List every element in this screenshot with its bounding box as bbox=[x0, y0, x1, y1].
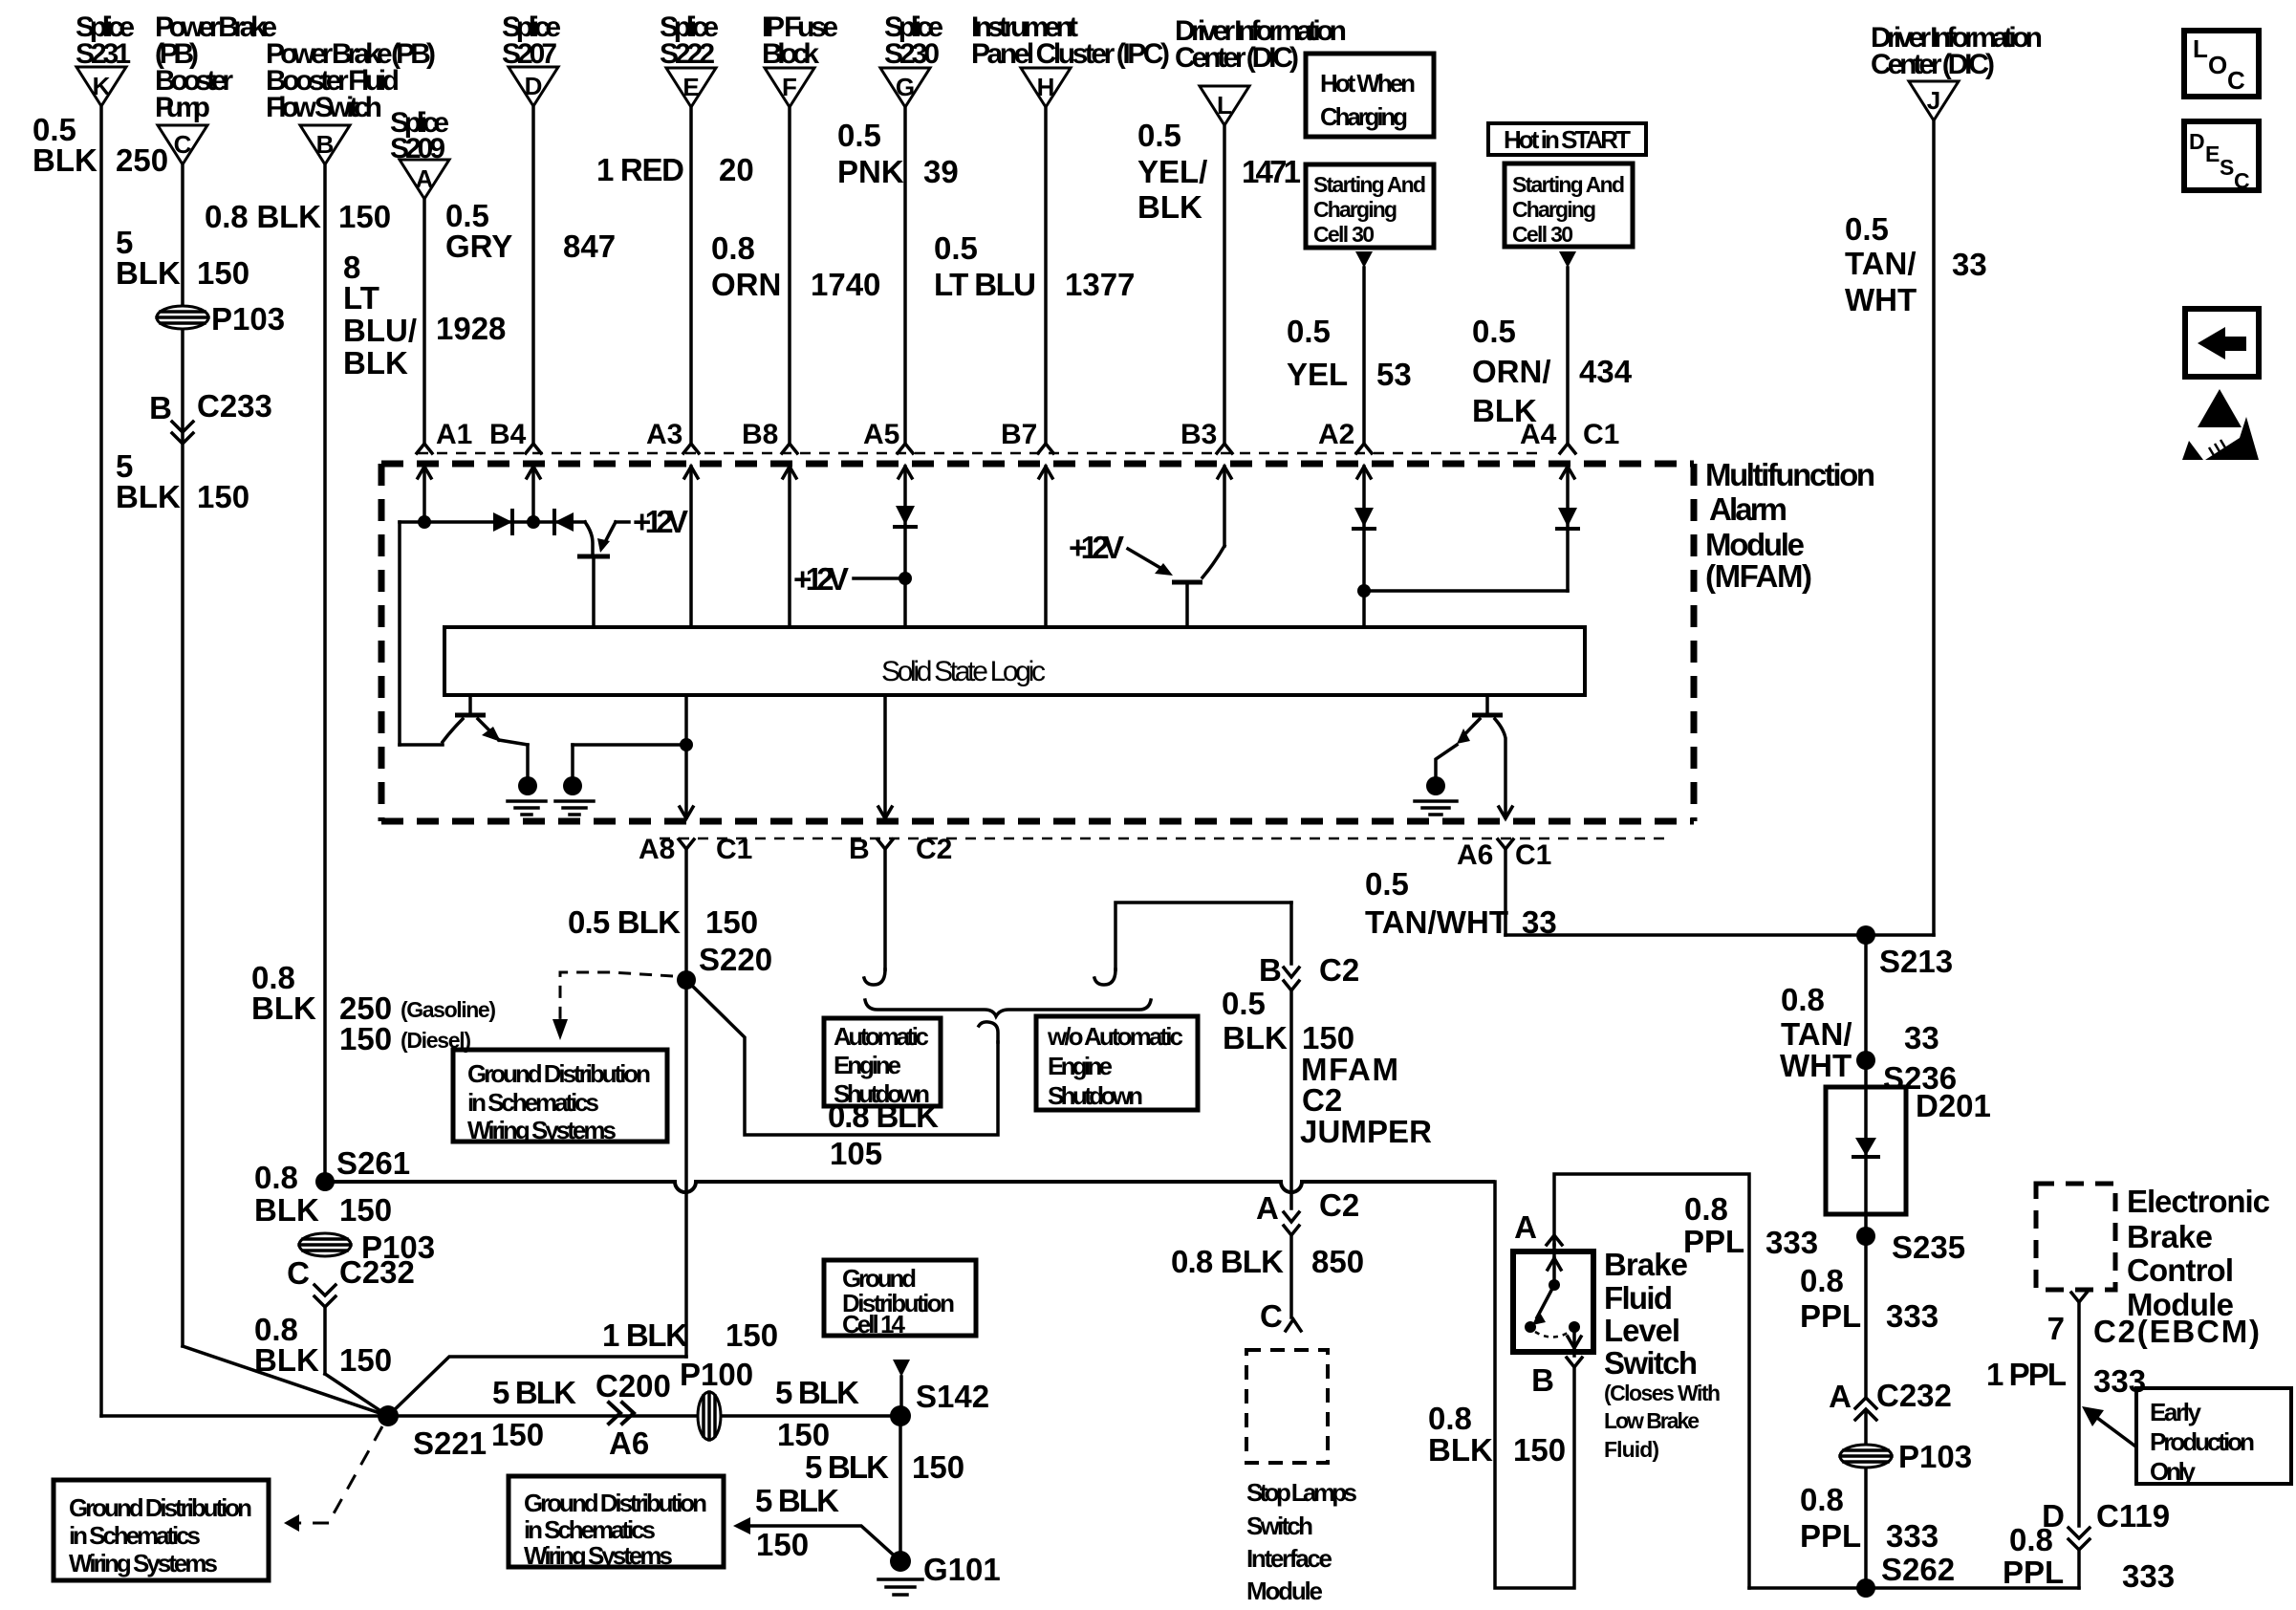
icon ESD symbol bbox=[2182, 389, 2259, 460]
svg-text:A5: A5 bbox=[863, 419, 899, 450]
svg-text:G101: G101 bbox=[923, 1552, 1001, 1587]
svg-text:Only: Only bbox=[2150, 1457, 2197, 1486]
svg-text:G: G bbox=[896, 73, 915, 101]
svg-text:5 BLK: 5 BLK bbox=[492, 1375, 576, 1410]
svg-text:C200: C200 bbox=[596, 1368, 671, 1403]
svg-text:0.8: 0.8 bbox=[2009, 1522, 2053, 1557]
svg-text:BLK: BLK bbox=[1223, 1020, 1288, 1055]
connector triangle E (Splice S222) bbox=[660, 11, 719, 107]
wire S213 to S236 labels 0.8 TAN/WHT 33 bbox=[1780, 935, 1939, 1087]
svg-text:YEL/: YEL/ bbox=[1137, 154, 1207, 189]
svg-text:333: 333 bbox=[2122, 1558, 2175, 1594]
svg-text:C1: C1 bbox=[1583, 419, 1619, 450]
splice S221 bbox=[378, 1405, 487, 1461]
svg-text:C: C bbox=[2227, 66, 2245, 95]
connector C232 pin A (right) bbox=[1829, 1378, 1952, 1588]
diode D-b (points left) bbox=[554, 511, 574, 533]
wire B of switch to S261 line 0.8 BLK 150 bbox=[1428, 1182, 1574, 1588]
svg-text:BLK: BLK bbox=[116, 255, 181, 291]
svg-text:LT BLU: LT BLU bbox=[934, 267, 1036, 302]
svg-text:Module: Module bbox=[1705, 527, 1805, 562]
wire D 0.5 GRY 847 bbox=[445, 106, 616, 444]
Brake Fluid Level Switch bbox=[1513, 1245, 1593, 1356]
svg-text:5 BLK: 5 BLK bbox=[805, 1449, 889, 1485]
svg-text:333: 333 bbox=[1765, 1225, 1818, 1260]
svg-text:(Gasoline): (Gasoline) bbox=[401, 997, 496, 1022]
svg-text:A1: A1 bbox=[436, 419, 472, 450]
svg-text:Wiring Systems: Wiring Systems bbox=[69, 1549, 218, 1577]
svg-text:(Diesel): (Diesel) bbox=[401, 1028, 471, 1053]
svg-text:LT: LT bbox=[343, 280, 379, 315]
svg-text:7: 7 bbox=[2047, 1311, 2065, 1346]
svg-text:B: B bbox=[849, 834, 870, 865]
svg-text:BLK: BLK bbox=[116, 479, 181, 514]
svg-text:1 PPL: 1 PPL bbox=[1986, 1357, 2067, 1392]
svg-text:BLK: BLK bbox=[251, 990, 316, 1026]
svg-text:Interface: Interface bbox=[1246, 1544, 1332, 1573]
pin B4 bbox=[489, 419, 541, 522]
diode on A5 wire bbox=[895, 506, 916, 527]
svg-text:150: 150 bbox=[197, 479, 249, 514]
svg-text:0.8: 0.8 bbox=[254, 1160, 298, 1195]
svg-text:D: D bbox=[2189, 129, 2205, 154]
module label Multifunction Alarm Module (MFAM) bbox=[1705, 457, 1875, 594]
svg-text:A: A bbox=[416, 164, 434, 193]
svg-text:B: B bbox=[1259, 952, 1282, 988]
svg-text:ORN/: ORN/ bbox=[1472, 354, 1551, 389]
svg-text:0.8: 0.8 bbox=[1684, 1191, 1728, 1227]
diode on A2 wire bbox=[1354, 508, 1375, 529]
wire 1 PPL 333 bbox=[1986, 1357, 2146, 1399]
connector triangle C (Power Brake Booster Pump) bbox=[155, 11, 277, 164]
svg-text:B8: B8 bbox=[742, 419, 778, 450]
svg-text:0.5: 0.5 bbox=[1472, 314, 1516, 349]
wire A4 to A2 junction bbox=[1357, 584, 1568, 598]
connector triangle F (IP Fuse Block) bbox=[762, 11, 838, 107]
jumper labels 0.8 BLK 850 bbox=[1171, 1244, 1364, 1279]
splice S220 bbox=[677, 970, 696, 990]
svg-text:Cell 14: Cell 14 bbox=[842, 1310, 906, 1338]
svg-text:0.8: 0.8 bbox=[1800, 1263, 1844, 1298]
splice S261 bbox=[315, 1145, 410, 1191]
svg-text:C233: C233 bbox=[197, 388, 272, 424]
svg-text:Shutdown: Shutdown bbox=[834, 1079, 930, 1108]
svg-text:D: D bbox=[525, 72, 543, 100]
svg-text:150: 150 bbox=[491, 1417, 544, 1452]
ground G101 bbox=[878, 1551, 1001, 1595]
switch label Brake Fluid Level Switch (Closes With Low Brake Fluid) bbox=[1604, 1247, 1721, 1462]
icon box DESC bbox=[2184, 121, 2259, 193]
wire S235 to C232 labels 0.8 PPL 333 bbox=[1800, 1236, 1939, 1398]
box Hot in START bbox=[1488, 123, 1646, 155]
svg-text:33: 33 bbox=[1904, 1020, 1939, 1055]
svg-text:Pump: Pump bbox=[155, 92, 210, 123]
svg-text:0.5: 0.5 bbox=[1137, 118, 1181, 153]
svg-text:5 BLK: 5 BLK bbox=[775, 1375, 859, 1410]
pin 7 C2(EBCM) bbox=[2047, 1293, 2260, 1526]
ground (A8 side) bbox=[555, 738, 693, 815]
svg-text:Fluid: Fluid bbox=[1604, 1280, 1673, 1316]
svg-text:BLU/: BLU/ bbox=[343, 313, 417, 348]
box Automatic Engine Shutdown bbox=[824, 1018, 941, 1108]
svg-text:Stop Lamps: Stop Lamps bbox=[1246, 1478, 1357, 1507]
svg-text:1471: 1471 bbox=[1242, 154, 1301, 189]
svg-text:Hot in START: Hot in START bbox=[1504, 125, 1631, 154]
wire K corner into S221 bbox=[101, 1414, 388, 1418]
svg-text:A6: A6 bbox=[609, 1425, 649, 1461]
svg-text:A: A bbox=[1256, 1190, 1279, 1226]
svg-text:Block: Block bbox=[762, 38, 819, 70]
transistor Q3 (right output) bbox=[1436, 695, 1512, 818]
svg-text:Starting And: Starting And bbox=[1313, 172, 1426, 197]
svg-text:434: 434 bbox=[1579, 354, 1633, 389]
wire L 0.5 YEL/BLK 1471 bbox=[1137, 118, 1301, 444]
svg-text:+12V: +12V bbox=[1069, 530, 1124, 565]
svg-text:Electronic: Electronic bbox=[2127, 1184, 2270, 1219]
svg-text:B: B bbox=[149, 390, 172, 425]
svg-text:250: 250 bbox=[116, 142, 168, 178]
svg-text:(Closes With: (Closes With bbox=[1604, 1381, 1721, 1405]
svg-text:150: 150 bbox=[1302, 1020, 1354, 1055]
wire S261 to brake fluid switch (hops over two wires) bbox=[325, 1182, 1495, 1192]
svg-text:S235: S235 bbox=[1892, 1229, 1965, 1265]
svg-text:847: 847 bbox=[563, 228, 616, 264]
svg-text:Center (DIC): Center (DIC) bbox=[1175, 42, 1299, 74]
ground (Q4 emitter) bbox=[508, 776, 546, 815]
svg-text:A4: A4 bbox=[1520, 419, 1557, 450]
wire J 0.5 TAN/WHT 33 bbox=[1845, 120, 1987, 935]
svg-text:PNK: PNK bbox=[837, 154, 904, 189]
box Ground Distribution in Schematics Wiring Systems (lower left) bbox=[54, 1480, 269, 1580]
Solid State Logic box bbox=[444, 627, 1585, 695]
svg-text:YEL: YEL bbox=[1287, 357, 1348, 392]
pin B3 bbox=[1180, 419, 1232, 546]
svg-text:in Schematics: in Schematics bbox=[524, 1515, 656, 1544]
svg-text:TAN/: TAN/ bbox=[1781, 1016, 1852, 1052]
svg-text:BLK: BLK bbox=[343, 345, 408, 381]
connector triangle H (Instrument Panel Cluster IPC) bbox=[971, 11, 1170, 107]
svg-text:Ground Distribution: Ground Distribution bbox=[467, 1059, 651, 1088]
svg-text:0.8: 0.8 bbox=[1781, 982, 1825, 1017]
+12V feed to A5 bbox=[793, 561, 912, 597]
labels 5 BLK 150 (right of P100) bbox=[775, 1375, 859, 1452]
connector A C2 on jumper wire bbox=[1256, 1187, 1359, 1317]
svg-text:S220: S220 bbox=[699, 942, 772, 977]
splice S142 bbox=[890, 1379, 989, 1426]
svg-text:0.5: 0.5 bbox=[934, 230, 978, 266]
svg-text:GRY: GRY bbox=[445, 228, 512, 264]
svg-text:1928: 1928 bbox=[436, 311, 506, 346]
wire B 0.8 BLK 150 bbox=[205, 164, 391, 1182]
svg-text:A2: A2 bbox=[1318, 419, 1354, 450]
wire E 1 RED 20 bbox=[596, 107, 754, 444]
svg-text:0.5: 0.5 bbox=[1287, 314, 1331, 349]
svg-text:1 BLK: 1 BLK bbox=[602, 1317, 688, 1353]
grommet P103 (wire B) bbox=[299, 1229, 435, 1265]
connector triangle J (Driver Information Center DIC) bbox=[1871, 22, 2043, 120]
svg-text:B3: B3 bbox=[1180, 419, 1217, 450]
svg-text:C232: C232 bbox=[339, 1254, 415, 1290]
svg-text:S142: S142 bbox=[916, 1379, 989, 1414]
svg-text:850: 850 bbox=[1311, 1244, 1364, 1279]
ground (Q3 emitter) bbox=[1415, 776, 1457, 815]
svg-text:Flow Switch: Flow Switch bbox=[266, 92, 382, 123]
svg-text:C: C bbox=[287, 1255, 310, 1291]
svg-text:TAN/WHT: TAN/WHT bbox=[1365, 904, 1508, 940]
grommet P100 bbox=[680, 1357, 753, 1440]
svg-text:Charging: Charging bbox=[1320, 102, 1408, 131]
svg-text:150: 150 bbox=[756, 1527, 809, 1562]
svg-text:150: 150 bbox=[339, 1192, 392, 1228]
wire G 0.5 PNK 39 bbox=[837, 107, 959, 444]
svg-text:0.5: 0.5 bbox=[1222, 986, 1266, 1021]
box Early Production Only bbox=[2136, 1388, 2291, 1486]
svg-text:Solid State Logic: Solid State Logic bbox=[881, 656, 1046, 687]
connector triangle K (Splice S231) bbox=[76, 11, 135, 106]
svg-text:150: 150 bbox=[338, 199, 391, 234]
svg-text:333: 333 bbox=[1886, 1298, 1939, 1334]
svg-text:BLK: BLK bbox=[1428, 1432, 1493, 1468]
svg-text:ORN: ORN bbox=[711, 267, 781, 302]
svg-text:B: B bbox=[316, 130, 335, 159]
main ground wire 5 BLK 150 to S142 bbox=[388, 1375, 900, 1452]
svg-text:C2: C2 bbox=[916, 834, 952, 865]
svg-text:H: H bbox=[1037, 73, 1055, 101]
Electronic Brake Control Module (dashed box) bbox=[2036, 1184, 2270, 1322]
svg-text:C232: C232 bbox=[1876, 1378, 1952, 1413]
svg-text:Cell 30: Cell 30 bbox=[1313, 222, 1375, 247]
connector boundary (thin dashed, bottom) bbox=[660, 838, 1668, 840]
svg-text:JUMPER: JUMPER bbox=[1300, 1114, 1432, 1149]
svg-text:A: A bbox=[1514, 1209, 1537, 1245]
svg-text:0.8: 0.8 bbox=[1428, 1401, 1472, 1436]
svg-text:150: 150 bbox=[912, 1449, 964, 1485]
wire A6 labels 0.5 TAN/WHT 33 bbox=[1365, 866, 1557, 940]
svg-text:BLK: BLK bbox=[1137, 189, 1202, 225]
svg-text:J: J bbox=[1927, 86, 1940, 115]
Stop Lamps Switch Interface Module (dashed box) bbox=[1246, 1350, 1357, 1605]
pin B8 bbox=[742, 419, 797, 627]
svg-text:(MFAM): (MFAM) bbox=[1705, 558, 1812, 594]
svg-text:L: L bbox=[1217, 91, 1232, 120]
svg-text:S207: S207 bbox=[502, 38, 557, 70]
pointer arrow from Early Production Only box bbox=[2082, 1406, 2134, 1446]
svg-text:Engine: Engine bbox=[834, 1051, 901, 1079]
svg-text:150: 150 bbox=[339, 1342, 392, 1378]
svg-text:Control: Control bbox=[2127, 1252, 2234, 1288]
svg-text:PPL: PPL bbox=[1800, 1298, 1861, 1334]
svg-text:B7: B7 bbox=[1001, 419, 1037, 450]
svg-text:C: C bbox=[1260, 1298, 1283, 1334]
wire F 0.8 ORN 1740 bbox=[711, 107, 880, 444]
box Ground Distribution in Schematics Wiring Systems (upper) bbox=[453, 1050, 667, 1144]
svg-text:Production: Production bbox=[2150, 1427, 2255, 1456]
junction A1 bus bbox=[418, 515, 431, 529]
svg-text:S261: S261 bbox=[336, 1145, 410, 1181]
svg-text:105: 105 bbox=[830, 1136, 882, 1171]
svg-text:0.5: 0.5 bbox=[1845, 211, 1889, 247]
wire B labels 0.8 BLK 250 (Gasoline) 150 (Diesel) bbox=[251, 960, 496, 1056]
svg-text:BLK: BLK bbox=[254, 1192, 319, 1228]
pointer triangle from Cell 14 box to S142 bbox=[893, 1360, 910, 1416]
connector triangle A (Splice S209) bbox=[390, 107, 449, 199]
svg-text:Engine: Engine bbox=[1048, 1052, 1113, 1080]
svg-text:53: 53 bbox=[1376, 357, 1412, 392]
svg-text:O: O bbox=[2208, 51, 2227, 79]
bottom wire run S262 bbox=[1749, 1586, 2079, 1590]
labels 0.8 PPL 333 S262 bbox=[1800, 1482, 1955, 1587]
svg-text:Hot When: Hot When bbox=[1320, 69, 1416, 98]
svg-text:F: F bbox=[782, 73, 797, 101]
jumper labels 0.5 BLK 150 MFAM C2 JUMPER bbox=[1222, 986, 1432, 1149]
svg-text:20: 20 bbox=[719, 152, 754, 187]
svg-text:E: E bbox=[682, 73, 699, 101]
wire B C2 drop with end hook bbox=[864, 849, 885, 985]
junction B4 bus bbox=[527, 515, 540, 529]
svg-text:BLK: BLK bbox=[32, 142, 97, 178]
diode D-a (points right) bbox=[493, 511, 512, 533]
svg-text:S231: S231 bbox=[76, 38, 131, 70]
svg-text:0.8 BLK: 0.8 BLK bbox=[205, 199, 321, 234]
svg-text:Multifunction: Multifunction bbox=[1705, 457, 1875, 492]
wire C 5 BLK 150 bbox=[116, 164, 249, 1346]
wire C diagonal into S221 bbox=[183, 1346, 388, 1416]
svg-text:TAN/: TAN/ bbox=[1845, 246, 1917, 281]
transistor Q1 with +12V bbox=[577, 504, 688, 627]
box Hot When Charging bbox=[1306, 54, 1434, 137]
splice S262 bbox=[1856, 1578, 1875, 1598]
wire A8 output inside module bbox=[680, 695, 693, 818]
svg-text:0.5 BLK: 0.5 BLK bbox=[568, 904, 681, 940]
box w/o Automatic Engine Shutdown bbox=[1036, 1016, 1198, 1110]
svg-text:P103: P103 bbox=[211, 301, 285, 337]
box Ground Distribution Cell 14 bbox=[824, 1260, 976, 1338]
pin A8 / C1 (bottom) bbox=[639, 834, 752, 1357]
svg-text:Ground Distribution: Ground Distribution bbox=[524, 1489, 707, 1517]
svg-text:150: 150 bbox=[705, 904, 758, 940]
option wire (AES) 0.8 BLK 105 loop to S220 bbox=[686, 980, 998, 1171]
svg-text:150: 150 bbox=[1513, 1432, 1566, 1468]
svg-text:Module: Module bbox=[1246, 1577, 1323, 1605]
svg-text:Alarm: Alarm bbox=[1709, 491, 1787, 527]
grommet P103 (right) bbox=[1840, 1439, 1972, 1474]
labels 0.8 PPL 333 (C119) bbox=[2003, 1522, 2175, 1594]
svg-text:S221: S221 bbox=[413, 1425, 487, 1461]
svg-text:C: C bbox=[174, 130, 192, 159]
pin A of brake fluid level switch bbox=[1514, 1209, 1562, 1245]
svg-text:Wiring Systems: Wiring Systems bbox=[524, 1541, 673, 1570]
transistor Q4 (left output) bbox=[400, 695, 528, 776]
svg-text:B: B bbox=[1531, 1362, 1554, 1398]
grommet P103 (wire C) bbox=[157, 301, 285, 337]
svg-text:Brake: Brake bbox=[1604, 1247, 1688, 1282]
wire H 0.5 LT BLU 1377 bbox=[934, 107, 1135, 444]
svg-text:w/o Automatic: w/o Automatic bbox=[1047, 1022, 1183, 1051]
dashed reference pointer from S220 to Ground Distribution note bbox=[552, 972, 673, 1040]
wire B C2 output inside module bbox=[878, 695, 892, 818]
svg-text:WHT: WHT bbox=[1780, 1048, 1852, 1083]
connector triangle G (Splice S230) bbox=[880, 11, 943, 107]
svg-text:in Schematics: in Schematics bbox=[467, 1088, 599, 1117]
box Starting And Charging Cell 30 (left) bbox=[1306, 164, 1434, 248]
connector triangle L (Driver Information Center DIC) bbox=[1175, 15, 1347, 125]
svg-text:PPL: PPL bbox=[1800, 1518, 1861, 1554]
connector C200 pin A6 bbox=[596, 1368, 671, 1461]
icon box LOC bbox=[2184, 31, 2259, 97]
svg-text:1 RED: 1 RED bbox=[596, 152, 684, 187]
svg-text:P100: P100 bbox=[680, 1357, 753, 1392]
svg-text:150: 150 bbox=[339, 1021, 392, 1056]
svg-text:A6: A6 bbox=[1457, 839, 1493, 871]
svg-text:333: 333 bbox=[1886, 1518, 1939, 1554]
wire B below S261 labels 0.8 BLK 150 bbox=[254, 1160, 392, 1228]
wire A8 labels 0.5 BLK 150 bbox=[568, 904, 772, 977]
pin C of Stop Lamps Switch Interface Module bbox=[1260, 1298, 1301, 1334]
connector C232 pin C on wire B bbox=[254, 1254, 415, 1416]
pin B of brake fluid level switch bbox=[1531, 1358, 1582, 1398]
svg-text:+12V: +12V bbox=[793, 561, 849, 597]
svg-text:0.8: 0.8 bbox=[1800, 1482, 1844, 1517]
svg-text:Level: Level bbox=[1604, 1313, 1680, 1348]
pin A3 bbox=[646, 419, 699, 627]
svg-text:5 BLK: 5 BLK bbox=[755, 1483, 839, 1518]
box Starting And Charging Cell 30 (right) bbox=[1505, 163, 1633, 247]
pin B7 bbox=[1001, 419, 1053, 627]
svg-text:B4: B4 bbox=[489, 419, 527, 450]
svg-text:PPL: PPL bbox=[2003, 1555, 2064, 1590]
svg-text:Charging: Charging bbox=[1512, 197, 1596, 222]
svg-text:C1: C1 bbox=[716, 834, 752, 865]
svg-text:S222: S222 bbox=[660, 38, 715, 70]
svg-text:33: 33 bbox=[1952, 247, 1987, 282]
wire K 0.5 BLK 250 bbox=[32, 106, 168, 1416]
svg-text:0.5: 0.5 bbox=[837, 118, 881, 153]
internal bus wire A1-B4-diodes bbox=[400, 522, 585, 745]
svg-text:WHT: WHT bbox=[1845, 282, 1917, 317]
svg-text:Switch: Switch bbox=[1604, 1345, 1698, 1381]
wire A2 0.5 YEL 53 from Starting And Charging bbox=[1287, 251, 1412, 444]
svg-text:150: 150 bbox=[726, 1317, 778, 1353]
svg-text:Panel Cluster (IPC): Panel Cluster (IPC) bbox=[971, 38, 1170, 70]
svg-text:0.8 BLK: 0.8 BLK bbox=[1171, 1244, 1284, 1279]
wire S142 to G101 5 BLK 150 bbox=[805, 1416, 964, 1561]
diode D201 bbox=[1826, 1087, 1991, 1236]
svg-text:Wiring Systems: Wiring Systems bbox=[467, 1116, 617, 1144]
svg-text:C2: C2 bbox=[1319, 1187, 1359, 1223]
connector triangle D (Splice S207) bbox=[502, 11, 561, 106]
wire A8/1 BLK 150 down to S221 bbox=[388, 1317, 778, 1416]
svg-text:Fluid): Fluid) bbox=[1604, 1437, 1659, 1462]
svg-text:150: 150 bbox=[777, 1417, 830, 1452]
svg-text:Switch: Switch bbox=[1246, 1512, 1313, 1540]
splice S213 bbox=[1856, 925, 1953, 979]
wire A6 to S213 bbox=[1505, 933, 1934, 937]
svg-text:Cell 30: Cell 30 bbox=[1512, 222, 1573, 247]
svg-text:PPL: PPL bbox=[1683, 1224, 1744, 1259]
pin B / C2 (bottom) bbox=[849, 834, 952, 865]
svg-text:C1: C1 bbox=[1515, 839, 1551, 871]
options brace bbox=[865, 1000, 1151, 1016]
option wire (w/o AES) hook to MFAM C2 jumper bbox=[1094, 903, 1291, 985]
pin A5 bbox=[863, 419, 913, 627]
connector triangle B (Power Brake Booster Fluid Flow Switch) bbox=[266, 38, 436, 164]
svg-text:Low Brake: Low Brake bbox=[1604, 1408, 1700, 1433]
pin A1 bbox=[417, 419, 472, 522]
svg-text:S262: S262 bbox=[1881, 1552, 1955, 1587]
connector B C2 on jumper wire bbox=[1259, 952, 1359, 1208]
svg-text:C2: C2 bbox=[1319, 952, 1359, 988]
svg-text:Starting And: Starting And bbox=[1512, 172, 1625, 197]
